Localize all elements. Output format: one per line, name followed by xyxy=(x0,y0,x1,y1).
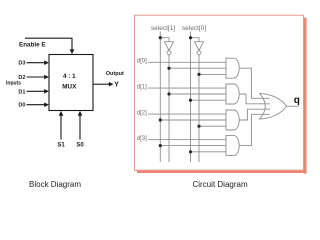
svg-text:D0: D0 xyxy=(18,103,25,109)
svg-text:D3: D3 xyxy=(18,61,25,67)
svg-text:4 : 1: 4 : 1 xyxy=(63,73,76,80)
svg-text:Block Diagram: Block Diagram xyxy=(29,180,81,189)
svg-text:D1: D1 xyxy=(18,89,25,95)
svg-text:Output: Output xyxy=(106,71,124,77)
svg-text:S1: S1 xyxy=(57,143,65,149)
svg-text:q: q xyxy=(294,95,300,106)
svg-text:select[1]: select[1] xyxy=(151,25,175,32)
svg-text:d[3]: d[3] xyxy=(137,136,147,142)
svg-text:Y: Y xyxy=(114,81,119,88)
svg-text:S0: S0 xyxy=(76,143,84,149)
svg-text:select[0]: select[0] xyxy=(182,25,206,32)
svg-text:d[2]: d[2] xyxy=(137,110,147,116)
svg-text:Enable E: Enable E xyxy=(19,42,46,49)
svg-text:Inputs: Inputs xyxy=(6,81,21,87)
svg-text:MUX: MUX xyxy=(62,84,77,91)
svg-text:d[1]: d[1] xyxy=(137,84,147,90)
svg-text:Circuit Diagram: Circuit Diagram xyxy=(193,180,248,189)
svg-text:d[0]: d[0] xyxy=(137,59,147,65)
